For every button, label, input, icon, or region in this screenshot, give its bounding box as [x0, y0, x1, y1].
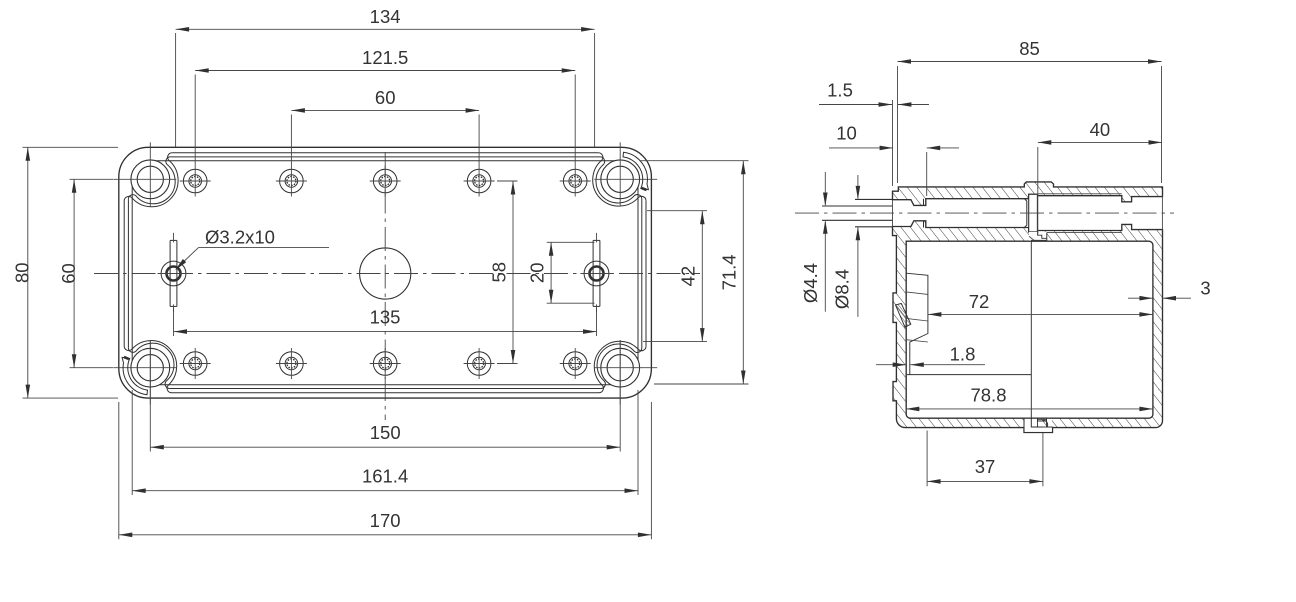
- svg-text:150: 150: [370, 422, 401, 443]
- pipe line Ø4.4 bottom: [822, 219, 893, 221]
- dimension 37: [926, 431, 928, 487]
- svg-text:121.5: 121.5: [362, 47, 408, 68]
- dimension 121.5: [194, 75, 196, 166]
- top-right corner mounting hole: [601, 160, 640, 199]
- gland insert bar: [1029, 194, 1038, 232]
- dimension 161.4 bottom: [131, 390, 133, 495]
- svg-text:60: 60: [58, 263, 79, 284]
- dimension 60 left: [70, 178, 114, 180]
- outer enclosure outline: [119, 147, 652, 398]
- center hole: [360, 248, 411, 299]
- bottom-right corner mounting hole: [601, 348, 640, 387]
- svg-text:134: 134: [370, 6, 401, 27]
- screw boss top 3: [373, 169, 397, 193]
- dimension 20: [547, 241, 595, 243]
- svg-text:170: 170: [370, 510, 401, 531]
- wall screw boss section: [896, 303, 911, 327]
- dimension 80 left: [23, 146, 119, 148]
- dimension 60 top: [290, 115, 292, 166]
- dimension 135: [173, 308, 175, 336]
- left slot boss Ø3.2x10: [161, 261, 186, 286]
- dimension 72: [928, 313, 1153, 315]
- section bore centerline: [795, 212, 1174, 214]
- svg-text:3: 3: [1200, 278, 1210, 299]
- horizontal centerline: [94, 273, 700, 275]
- dimension 10: [829, 147, 893, 149]
- screw boss top 4: [467, 169, 491, 193]
- dimension Ø4.4: [824, 172, 826, 205]
- interior shelf line: [906, 374, 1031, 376]
- bayonet tab bottom-left corner: [122, 357, 147, 394]
- bore end cap: [1024, 199, 1026, 228]
- dimension 58: [497, 180, 518, 182]
- interior wall boss: [906, 273, 928, 374]
- svg-text:42: 42: [678, 266, 699, 287]
- svg-text:Ø8.4: Ø8.4: [832, 269, 853, 309]
- dimension 42: [647, 210, 707, 212]
- right slot boss Ø3.2x10: [584, 261, 609, 286]
- screw boss bottom 5: [563, 352, 587, 376]
- svg-text:20: 20: [527, 263, 548, 284]
- inner wall contour: [156, 160, 615, 162]
- right face line across bore opening: [1161, 196, 1163, 230]
- bore relief lines: [1037, 193, 1121, 195]
- svg-text:1.5: 1.5: [827, 79, 853, 100]
- svg-text:161.4: 161.4: [362, 466, 408, 487]
- dimension 71.4: [640, 160, 749, 162]
- dimension 3: [1128, 297, 1153, 299]
- dimension 40: [1037, 147, 1039, 234]
- screw boss bottom 1: [183, 352, 207, 376]
- dimension 78.8: [906, 408, 1153, 410]
- svg-text:1.8: 1.8: [950, 344, 976, 365]
- label Ø3.2x10 with leader: [199, 246, 329, 248]
- svg-text:58: 58: [489, 262, 510, 283]
- svg-text:37: 37: [975, 456, 996, 477]
- bore lip left: [923, 199, 925, 228]
- svg-text:71.4: 71.4: [719, 254, 740, 290]
- dimension Ø8.4: [857, 175, 859, 199]
- dimension 134 top: [175, 33, 177, 147]
- interior vertical edge: [1030, 241, 1032, 418]
- svg-text:10: 10: [836, 123, 857, 144]
- screw boss top 5: [563, 169, 587, 193]
- dimension 1.5: [819, 104, 892, 106]
- svg-text:78.8: 78.8: [970, 384, 1006, 405]
- pipe line Ø4.4 top: [822, 205, 893, 207]
- svg-text:135: 135: [370, 307, 401, 328]
- screw boss bottom 4: [467, 352, 491, 376]
- dimension 85: [897, 66, 899, 183]
- screw boss bottom 2: [280, 352, 304, 376]
- lid seam contour middle: [128, 157, 175, 204]
- section body walls (hatched): [893, 221, 1163, 433]
- pipe line Ø8.4 top: [855, 198, 893, 200]
- svg-text:Ø3.2x10: Ø3.2x10: [205, 227, 275, 248]
- screw boss top 1: [183, 169, 207, 193]
- lid seam contour outer: [124, 153, 178, 207]
- bottom-left corner mounting hole: [131, 348, 170, 387]
- svg-text:80: 80: [12, 262, 33, 283]
- section top wall (hatched): [893, 182, 1163, 206]
- svg-text:40: 40: [1090, 119, 1111, 140]
- bayonet tab top-right corner: [623, 152, 648, 189]
- flange face line across bore opening: [892, 200, 894, 227]
- top-left corner mounting hole: [131, 160, 170, 199]
- gland catch pocket under insert: [1029, 232, 1047, 241]
- svg-text:Ø4.4: Ø4.4: [800, 263, 821, 303]
- screw boss bottom 3: [373, 352, 397, 376]
- pipe line Ø8.4 bottom: [855, 226, 893, 228]
- svg-text:85: 85: [1019, 38, 1040, 59]
- svg-text:60: 60: [375, 87, 396, 108]
- dimension 1.8: [876, 364, 906, 366]
- svg-text:72: 72: [969, 291, 990, 312]
- bottom latch detail: [1025, 419, 1052, 432]
- dimension 150 bottom: [149, 340, 151, 452]
- dimension 170 bottom: [118, 402, 120, 539]
- screw boss top 2: [280, 169, 304, 193]
- vertical centerline: [384, 152, 386, 420]
